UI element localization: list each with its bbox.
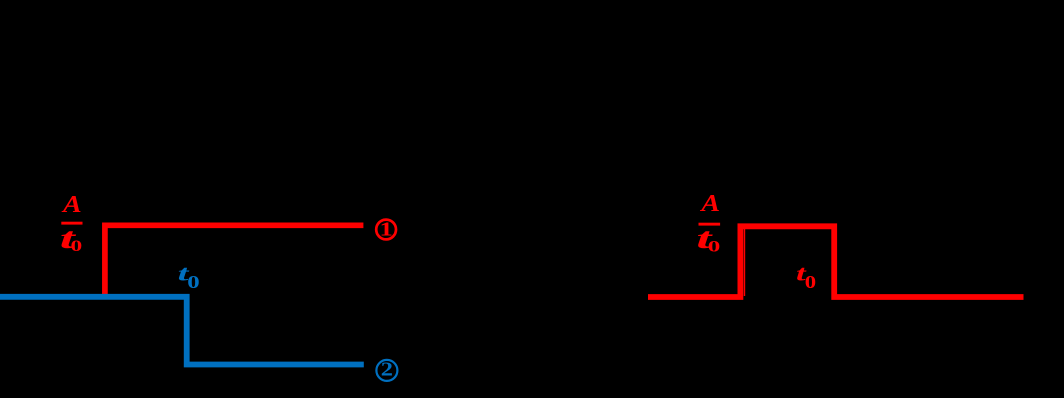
label A/t0 (right red): fraction bar: [699, 223, 721, 226]
svg-text:0: 0: [187, 273, 199, 293]
svg-text:0: 0: [708, 237, 721, 255]
marker circled 2 (blue): circle: [376, 360, 397, 381]
marker circled 1 (red): circle: [376, 220, 396, 240]
waveform 3: red rectangular pulse (A/t0)[u(t)-u(t-t0)]: [648, 226, 1024, 297]
svg-text:0: 0: [71, 237, 83, 255]
svg-text:A: A: [699, 189, 720, 217]
svg-text:A: A: [61, 190, 82, 218]
waveform 1: red step (A/t0)u(t), curve 1: [105, 225, 364, 299]
waveform 2: blue step -(A/t0)u(t-t0), curve 2: [0, 297, 364, 365]
svg-text:0: 0: [805, 273, 816, 292]
label A/t0 (left red): fraction bar: [61, 222, 82, 225]
svg-text:1: 1: [379, 219, 392, 241]
thin red vertical line at pulse rising edge: [744, 227, 746, 296]
svg-text:2: 2: [381, 358, 393, 380]
